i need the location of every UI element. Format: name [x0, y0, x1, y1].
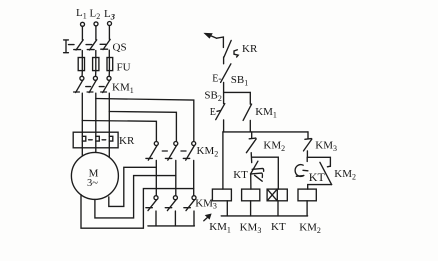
- svg-text:KM2: KM2: [299, 222, 321, 235]
- control feed arrow top: [205, 34, 223, 48]
- switch QS pole 3: [101, 39, 110, 57]
- thermal relay KR heater 2: [96, 132, 100, 148]
- fuse FU1: [78, 58, 84, 77]
- switch QS pole 1: [74, 40, 83, 58]
- wire phase2 KM1 to KR box: [95, 93, 97, 132]
- svg-text:E-: E-: [212, 73, 221, 84]
- svg-text:3~: 3~: [87, 178, 98, 189]
- contactor KM1 linkage dashes: [86, 86, 104, 88]
- contactor KM3 aux NO contact: [304, 132, 312, 157]
- wire jog to KT right contact: [307, 157, 330, 166]
- wire motor terminal B loop: [95, 176, 176, 218]
- contactor KM2 aux NO contact: [246, 132, 256, 163]
- svg-text:KM2: KM2: [334, 168, 356, 181]
- wire L2 drop: [95, 26, 97, 40]
- switch QS pole 2: [87, 40, 96, 58]
- thermal relay KR box: [73, 132, 118, 148]
- contactor KM2 main pole 3: [183, 142, 195, 196]
- contactor KM3 main pole 1: [146, 196, 158, 226]
- contactor KM2 linkage dashes: [162, 150, 186, 152]
- wire KM3 coil to bottom bus: [250, 201, 252, 216]
- thermal relay KR heater 3: [109, 132, 113, 148]
- svg-text:KM2: KM2: [263, 140, 285, 153]
- svg-text:SB2: SB2: [204, 90, 221, 103]
- wire KM3 star bus: [148, 225, 195, 227]
- wire feeder F2 phase3 to KM2 pole2 top: [109, 112, 176, 142]
- svg-text:KR: KR: [119, 135, 135, 147]
- contactor KM1 aux NO contact: [243, 92, 252, 131]
- svg-text:FU: FU: [117, 62, 131, 74]
- motor M: [71, 152, 118, 199]
- contactor KM1 main pole 1: [74, 76, 84, 92]
- svg-text:KM3: KM3: [240, 222, 262, 235]
- wire motor terminal A loop: [81, 189, 194, 229]
- terminal L1: [81, 22, 85, 26]
- coil KM2: [298, 189, 316, 201]
- svg-text:KM3: KM3: [195, 197, 217, 210]
- wire KT contact bottom to KM2 coil: [308, 185, 332, 190]
- svg-text:KM1: KM1: [209, 221, 231, 234]
- coil KM1: [212, 189, 231, 201]
- wire motor terminal C loop: [109, 167, 157, 206]
- terminal L3: [108, 22, 112, 26]
- wire feeder F3 phase2 to KM2 pole3 top: [96, 99, 194, 142]
- svg-text:E: E: [210, 107, 216, 118]
- svg-text:KT: KT: [309, 170, 326, 184]
- thermal relay KR NC contact: [224, 40, 239, 63]
- svg-text:QS: QS: [113, 42, 127, 54]
- wire branch to KT coil: [252, 157, 279, 189]
- contactor KM2 main pole 1: [146, 142, 158, 196]
- svg-text:KM3: KM3: [315, 140, 337, 153]
- wire KT coil to bottom bus: [277, 201, 279, 216]
- contactor KM2 main pole 2: [165, 142, 177, 196]
- wire L1 drop: [81, 26, 83, 40]
- svg-text:KT: KT: [233, 169, 248, 181]
- fuse FU3: [107, 58, 113, 77]
- contactor KM1 main pole 3: [101, 76, 111, 92]
- contactor KM3 main pole 2: [165, 196, 177, 226]
- fuse FU2: [93, 58, 99, 77]
- svg-text:KM1: KM1: [112, 82, 134, 95]
- control return arrow bottom: [204, 214, 211, 220]
- wire control bottom bus: [221, 215, 307, 217]
- terminal L2: [94, 22, 98, 26]
- svg-text:KM2: KM2: [197, 145, 219, 158]
- wire KR box to motor 2: [95, 148, 97, 153]
- wire feeder F1 phase1 to KM2 pole1 top: [82, 121, 156, 142]
- svg-text:L2: L2: [90, 8, 101, 21]
- coil KT: [267, 189, 287, 201]
- wire stub above KT right delay cup: [306, 157, 308, 161]
- time relay KT delayed contact left: [251, 161, 264, 189]
- pushbutton SB1 stop NC: [221, 64, 231, 93]
- svg-text:L1: L1: [76, 7, 87, 20]
- wire KR box to motor 3: [108, 148, 110, 158]
- wire L3 drop: [108, 26, 110, 40]
- pushbutton SB2 start NO: [216, 92, 225, 131]
- wire KR box to motor 1: [81, 148, 83, 159]
- contactor KM1 main pole 2: [87, 76, 97, 92]
- svg-text:KR: KR: [242, 43, 258, 55]
- wire phase1 KM1 to KR box: [81, 93, 83, 132]
- coil KM3: [242, 189, 260, 201]
- wire KM2 coil to bottom bus: [306, 201, 308, 216]
- thermal relay KR heater 1: [82, 132, 86, 148]
- wire branch to KM1 coil: [222, 132, 224, 189]
- wire KM1 coil to bottom bus: [226, 201, 228, 216]
- contactor KM3 main pole 3: [184, 196, 196, 226]
- time relay KT delayed contact right: [295, 162, 331, 184]
- wire SB1 to SB2 junction branch: [224, 91, 251, 93]
- svg-text:KM1: KM1: [255, 106, 277, 119]
- svg-text:L3: L3: [104, 8, 116, 21]
- svg-text:SB1: SB1: [231, 74, 248, 87]
- thermal relay KR linkage dashes: [89, 139, 106, 141]
- wire phase3 KM1 to KR box: [108, 93, 110, 132]
- wire control bus: [223, 131, 308, 133]
- switch QS linkage handle: [64, 40, 106, 53]
- svg-text:KT: KT: [271, 221, 286, 233]
